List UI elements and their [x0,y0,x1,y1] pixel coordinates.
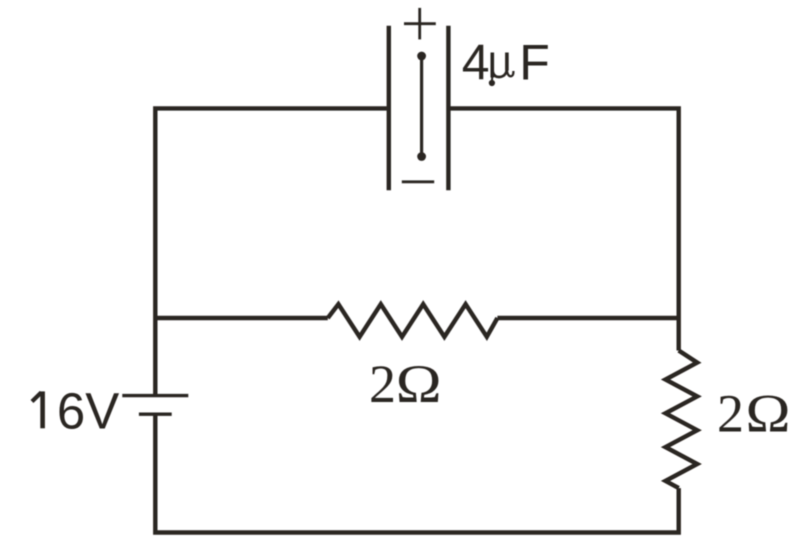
mu teardrop descender [489,80,495,86]
capacitor C1 right plate [446,26,450,191]
polarity plus sign above capacitor [404,8,436,40]
svg-text:2: 2 [717,384,744,444]
resistor R2 2-ohm vertical zigzag [666,351,698,489]
wire: top-left segment and left vertical (node A to battery +) [155,108,387,394]
wire: middle horizontal right segment [497,316,678,320]
field line between capacitor plates [420,56,423,157]
label 4uF: mu glyph (drawn) [492,53,513,81]
svg-text:2: 2 [369,354,396,414]
wire: middle horizontal left segment [155,316,327,320]
polarity minus sign below capacitor [402,180,434,183]
capacitor C1 left plate [387,26,391,191]
resistor R1 2-ohm horizontal zigzag [328,304,498,337]
wire: right vertical upper and top-right segment [450,108,678,350]
svg-text:6V: 6V [57,382,119,439]
battery V1 16V positive plate (long) [122,394,188,397]
svg-text:4: 4 [462,34,490,90]
wire: left vertical lower, bottom wire, right vertical lower [155,416,678,533]
svg-text:Ω: Ω [396,354,442,415]
svg-text:Ω: Ω [746,384,791,443]
label 16V: digit 1 (drawn, Arial style) [32,391,43,428]
svg-text:F: F [519,34,550,90]
field line bottom dot [417,152,426,161]
battery V1 16V negative plate (short) [139,413,172,416]
field line top dot [417,52,426,61]
